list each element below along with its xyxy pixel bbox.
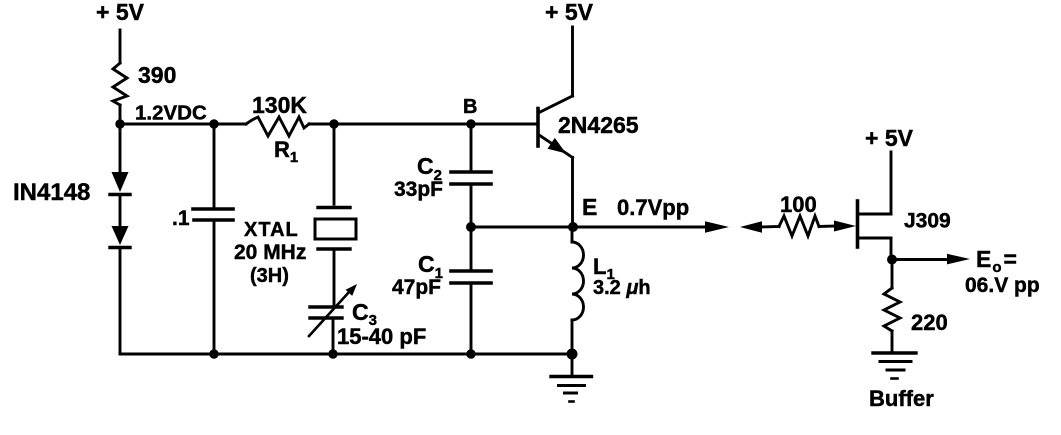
resistor R390 (390 ohm, vertical) [113, 63, 127, 105]
label 3.2 uh [593, 277, 651, 299]
svg-text:100: 100 [780, 192, 817, 217]
label XTAL [244, 219, 299, 241]
svg-text:+ 5V: + 5V [545, 0, 594, 25]
svg-text:220: 220 [911, 310, 948, 335]
node (0.1uF cap branch) [209, 119, 218, 128]
wire bottom rail [120, 353, 572, 356]
wire B node down to C2 [470, 124, 473, 172]
arrow output Eo [947, 254, 970, 265]
label J309 [904, 210, 951, 233]
wire C2 to node E row [470, 184, 473, 227]
wire +5V lead to R390 [119, 30, 122, 63]
wire source to R220 [891, 260, 894, 289]
label 2N4265 [558, 112, 639, 138]
svg-text:06.V pp: 06.V pp [965, 274, 1040, 297]
wire link to R100 [758, 225, 779, 228]
resistor R100 (100 ohm horizontal) [779, 216, 819, 236]
wire R390 to node A [119, 105, 122, 124]
node E (emitter junction) [568, 222, 578, 232]
wire XTAL branch upper [333, 124, 336, 204]
arrow link (left-pointing, to 100 ohm) [740, 221, 762, 232]
wire R220 to ground [891, 331, 894, 351]
node C2/C1 junction [466, 222, 476, 232]
label .1 [172, 207, 190, 230]
label (3H) [250, 265, 289, 287]
svg-text:XTAL: XTAL [244, 219, 299, 241]
label 1.2VDC [135, 102, 207, 125]
wire C3 to bottom rail [332, 318, 335, 354]
wire R100 to gate arrow [819, 225, 836, 228]
label Eo= [976, 246, 1017, 276]
wire E row [471, 226, 706, 229]
label 390 [138, 62, 176, 88]
capacitor .1 [193, 209, 233, 220]
svg-text:.1: .1 [172, 207, 190, 230]
svg-text:130K: 130K [252, 92, 307, 118]
label 20 MHz [234, 241, 306, 264]
wire node A down to diode D1 [119, 124, 122, 172]
node bottom (.1 cap) [209, 349, 218, 358]
inductor L1 3.2uh [572, 227, 584, 354]
node A (junction 390/diodes/rail) [115, 119, 124, 128]
transistor J309 (JFET) [858, 201, 892, 260]
node bottom (C1) [466, 349, 475, 358]
svg-text:J309: J309 [904, 210, 951, 233]
label Buffer [869, 386, 934, 411]
label 100 [780, 192, 817, 217]
label 0.7Vpp [617, 195, 689, 220]
power +5V label (collector) [545, 0, 594, 25]
node source junction [887, 255, 897, 265]
label 130K [252, 92, 307, 118]
node bottom (C3) [328, 349, 337, 358]
wire ground stub [571, 354, 574, 375]
label 33pF [394, 178, 443, 201]
label 15-40 pF [337, 324, 426, 349]
label C1 [418, 251, 443, 282]
label L1 [593, 254, 615, 283]
svg-text:E: E [582, 194, 597, 220]
diode D2 (IN4148) [110, 226, 130, 248]
wire .1 cap branch upper [213, 124, 216, 209]
resistor R1 130K (horizontal) [246, 117, 309, 136]
wire D1 to D2 [119, 195, 122, 227]
wire drain lead [890, 152, 893, 214]
label B [463, 96, 477, 118]
svg-text:47pF: 47pF [392, 276, 441, 299]
label C2 [417, 153, 442, 184]
svg-text:2N4265: 2N4265 [558, 112, 639, 138]
wire C1 upper [470, 227, 473, 271]
svg-text:33pF: 33pF [394, 178, 443, 201]
node B [466, 119, 475, 128]
capacitor C2 33pF [451, 172, 491, 184]
svg-text:B: B [463, 96, 477, 118]
svg-text:390: 390 [138, 62, 176, 88]
wire C1 to bottom rail [470, 283, 473, 354]
arrow E output (right) [705, 221, 729, 232]
ground (buffer) [873, 353, 916, 379]
svg-text:15-40 pF: 15-40 pF [337, 324, 426, 349]
svg-text:+ 5V: + 5V [96, 0, 145, 25]
node (XTAL branch) [329, 119, 338, 128]
label C3 [352, 299, 377, 329]
wire top rail left segment [120, 123, 246, 126]
transistor Q1 2N4265 [538, 96, 573, 158]
resistor R220 (220 ohm vertical) [884, 288, 900, 331]
power +5V label (left) [96, 0, 145, 25]
wire XTAL to C3 [333, 249, 336, 307]
svg-text:+ 5V: + 5V [865, 125, 914, 151]
svg-text:0.7Vpp: 0.7Vpp [617, 195, 689, 220]
wire emitter down to node E [571, 158, 574, 228]
wire .1 cap to bottom rail [213, 220, 216, 354]
label R1 [274, 137, 298, 166]
ground (main) [551, 377, 592, 402]
power +5V label (drain) [865, 125, 914, 151]
label IN4148 [13, 179, 90, 206]
svg-text:3.2 μh: 3.2 μh [593, 277, 651, 299]
capacitor C1 47pF [451, 271, 491, 283]
label 220 [911, 310, 948, 335]
crystal XTAL 20 MHz [315, 208, 356, 250]
wire top rail right segment to base [309, 123, 536, 126]
wire output [892, 258, 948, 261]
label 47pF [392, 276, 441, 299]
label E [582, 194, 597, 220]
svg-text:IN4148: IN4148 [13, 179, 90, 206]
node bottom (L1/ground) [567, 349, 578, 360]
diode D1 (IN4148) [110, 172, 130, 195]
svg-text:Buffer: Buffer [869, 386, 934, 411]
wire collector lead [571, 27, 574, 96]
svg-text:(3H): (3H) [250, 265, 289, 287]
wire D2 to bottom rail [119, 248, 122, 355]
arrow into gate [834, 221, 856, 232]
label 06.V pp [965, 274, 1040, 297]
capacitor C3 variable 15-40 pF [309, 284, 357, 336]
svg-text:1.2VDC: 1.2VDC [135, 102, 207, 125]
svg-text:20 MHz: 20 MHz [234, 241, 306, 264]
